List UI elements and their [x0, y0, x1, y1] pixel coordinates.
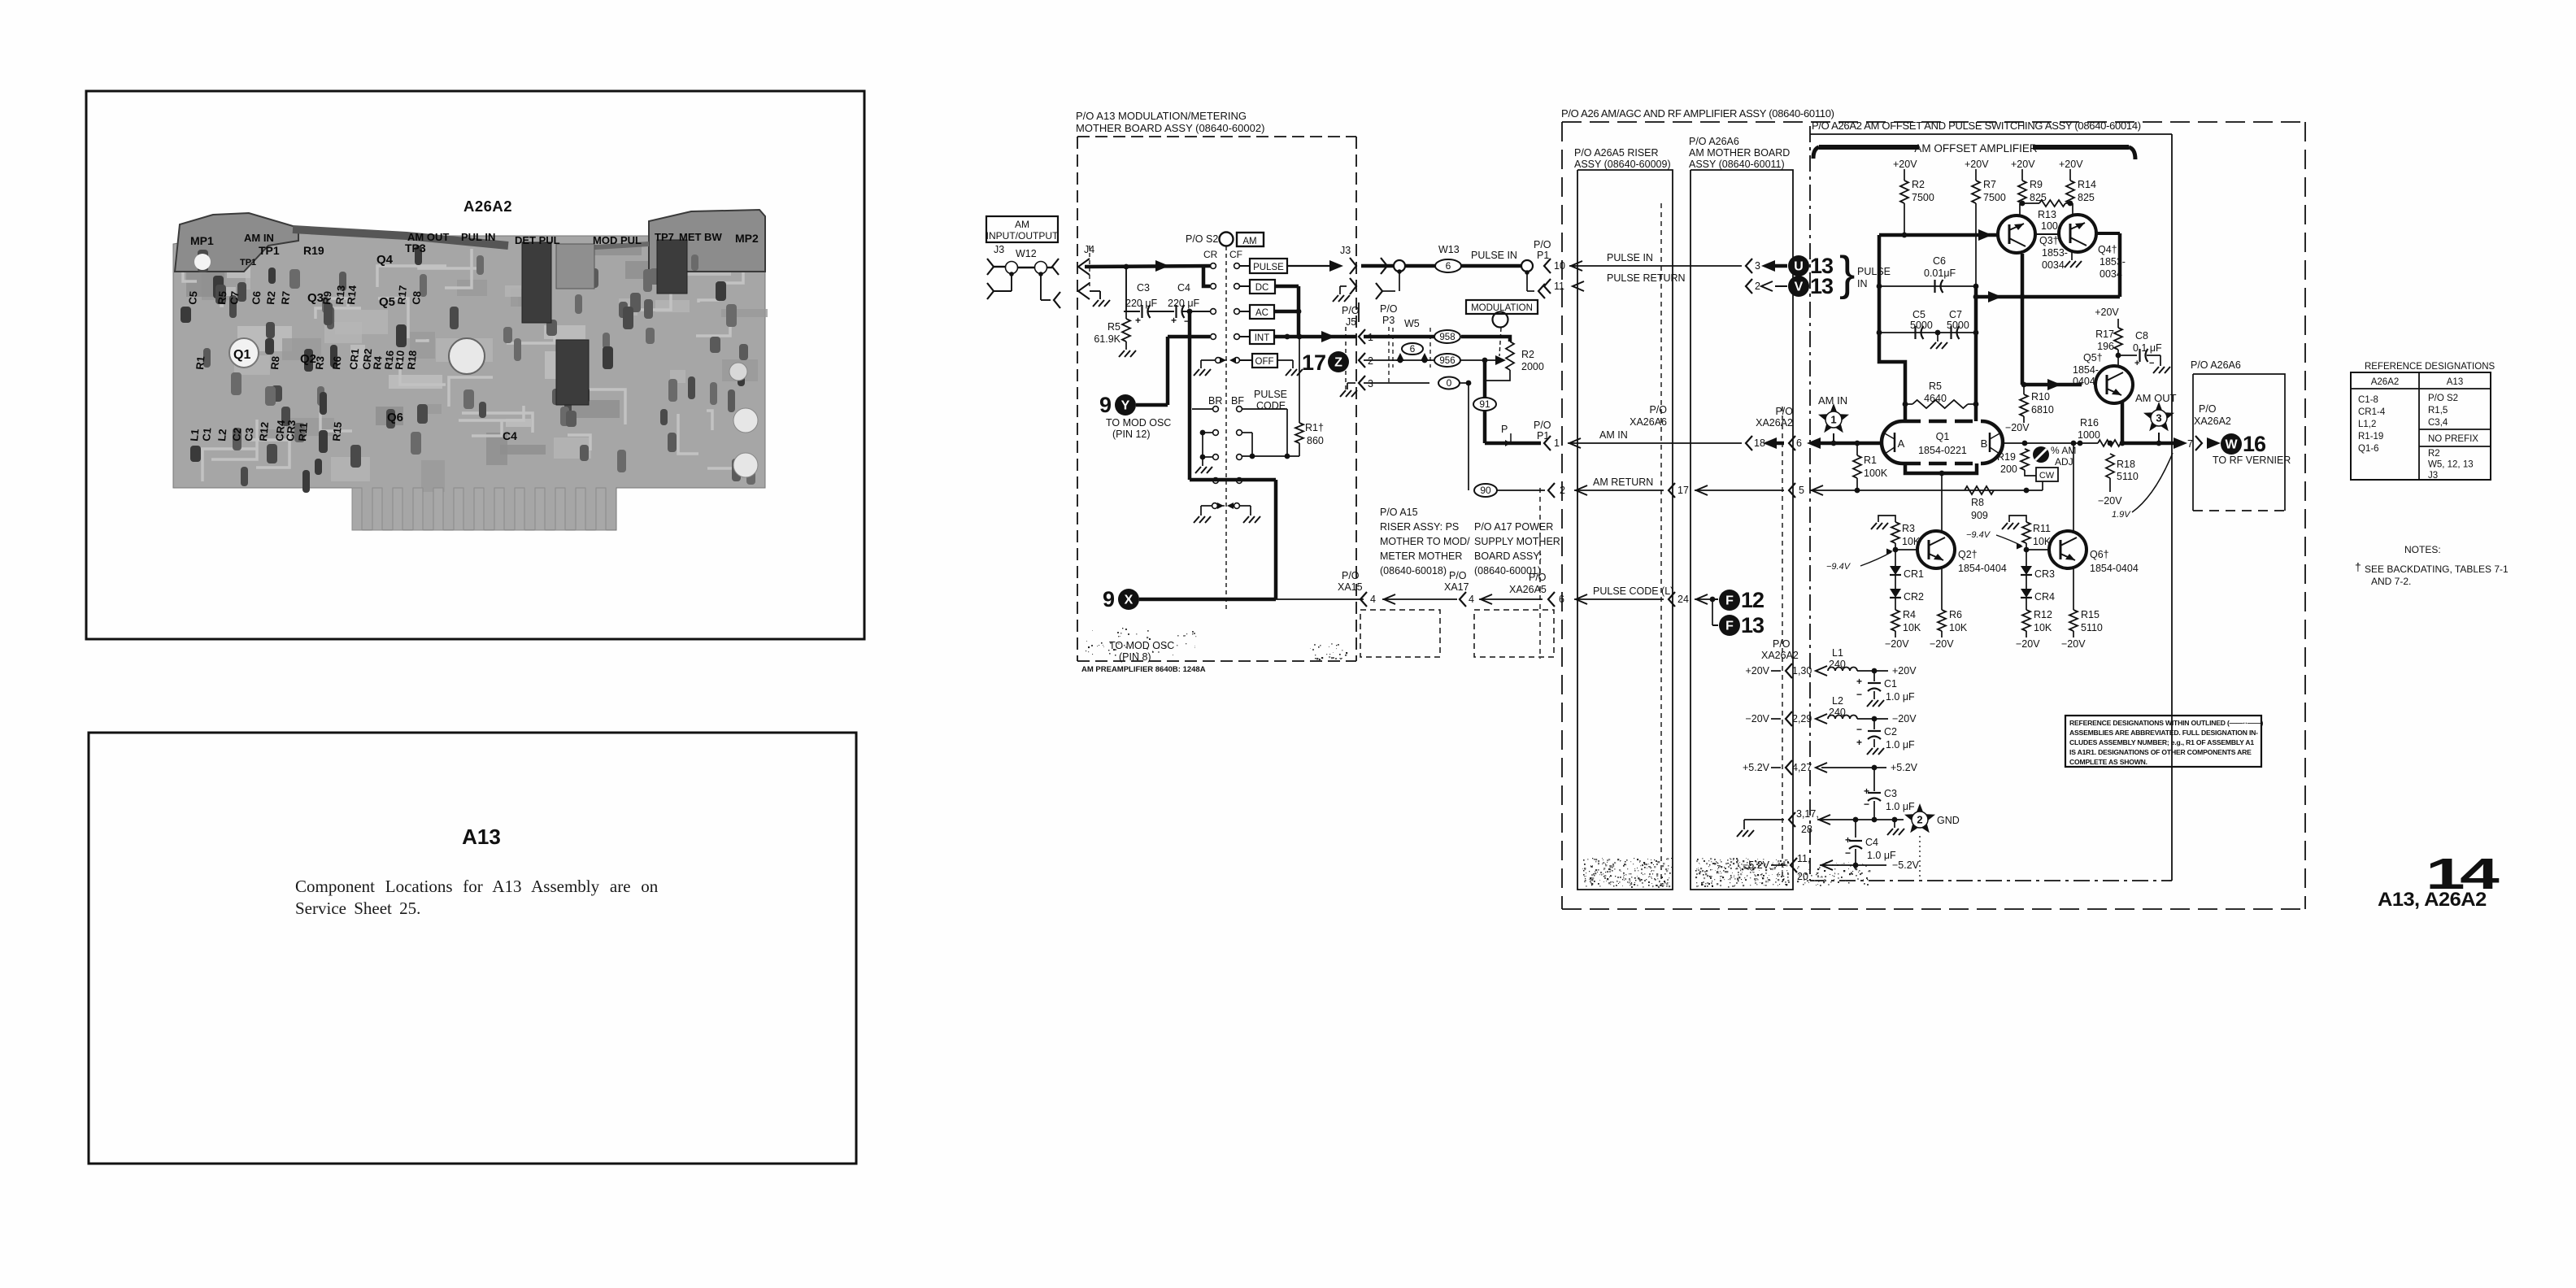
- svg-text:13: 13: [1741, 613, 1764, 637]
- svg-text:−20V: −20V: [2098, 495, 2122, 507]
- svg-text:Q6†: Q6†: [2090, 549, 2109, 560]
- svg-text:+: +: [1171, 315, 1177, 326]
- svg-text:PULSE: PULSE: [1253, 263, 1284, 272]
- svg-text:240: 240: [1829, 707, 1846, 718]
- svg-text:P3: P3: [1382, 315, 1395, 326]
- svg-text:C6: C6: [250, 290, 263, 305]
- svg-text:4: 4: [1469, 594, 1474, 605]
- svg-text:R2: R2: [1521, 349, 1534, 360]
- svg-text:DC: DC: [1255, 283, 1269, 293]
- svg-text:+20V: +20V: [1965, 159, 1989, 170]
- svg-text:AM IN: AM IN: [1818, 394, 1847, 407]
- svg-text:1854-0221: 1854-0221: [1918, 445, 1967, 456]
- svg-text:A: A: [1898, 437, 1905, 450]
- svg-text:P/O S2: P/O S2: [2428, 394, 2458, 403]
- svg-text:4: 4: [1370, 594, 1376, 605]
- svg-text:AM: AM: [1242, 237, 1256, 246]
- svg-text:−5.2V: −5.2V: [1892, 859, 1920, 871]
- svg-text:CODE: CODE: [1256, 400, 1286, 411]
- svg-text:−20V: −20V: [1930, 638, 1954, 650]
- svg-text:P/O: P/O: [1649, 404, 1667, 416]
- svg-text:R14: R14: [345, 284, 359, 305]
- svg-text:C4: C4: [1865, 837, 1878, 848]
- svg-text:1853-: 1853-: [2042, 247, 2068, 259]
- svg-text:R18: R18: [2117, 459, 2135, 470]
- svg-text:R2: R2: [1912, 179, 1925, 190]
- svg-text:P/O: P/O: [1534, 239, 1551, 250]
- svg-text:9: 9: [1103, 587, 1115, 611]
- svg-text:AM PREAMPLIFIER 8640B: 1248A: AM PREAMPLIFIER 8640B: 1248A: [1081, 665, 1206, 674]
- svg-text:11: 11: [1554, 281, 1564, 292]
- svg-text:R4: R4: [1903, 609, 1916, 620]
- svg-text:956: 956: [1439, 356, 1455, 366]
- svg-text:−: −: [1184, 315, 1190, 327]
- svg-text:J3: J3: [1340, 245, 1351, 256]
- svg-text:P/O: P/O: [1534, 420, 1551, 431]
- svg-text:R16: R16: [2080, 417, 2099, 429]
- svg-text:1: 1: [1554, 437, 1560, 449]
- svg-text:P/O A17 POWER: P/O A17 POWER: [1474, 521, 1553, 533]
- svg-text:R1: R1: [194, 355, 207, 370]
- svg-text:+20V: +20V: [1892, 665, 1917, 677]
- svg-text:CR: CR: [1203, 249, 1218, 260]
- svg-text:−: −: [1856, 724, 1862, 735]
- svg-text:(PIN 8): (PIN 8): [1119, 651, 1151, 663]
- svg-text:P/O: P/O: [1342, 305, 1360, 316]
- svg-text:R13: R13: [2038, 209, 2056, 220]
- svg-text:2: 2: [1917, 814, 1922, 826]
- svg-text:16: 16: [2243, 432, 2266, 456]
- svg-text:R15: R15: [330, 421, 344, 442]
- svg-text:Service Sheet 25.: Service Sheet 25.: [295, 899, 420, 918]
- svg-text:−9.4V: −9.4V: [1826, 562, 1851, 572]
- svg-text:REFERENCE DESIGNATIONS WITHIN: REFERENCE DESIGNATIONS WITHIN OUTLINED (…: [2069, 719, 2264, 727]
- svg-text:AM OUT: AM OUT: [2135, 392, 2177, 404]
- svg-text:W12: W12: [1016, 248, 1037, 259]
- svg-text:17: 17: [1677, 485, 1689, 496]
- svg-text:R9: R9: [2030, 179, 2043, 190]
- svg-text:J3: J3: [994, 244, 1004, 255]
- svg-text:P/O A26A6: P/O A26A6: [1689, 136, 1739, 147]
- svg-text:0.01μF: 0.01μF: [1924, 268, 1956, 279]
- svg-text:R3: R3: [1902, 523, 1915, 534]
- svg-text:91: 91: [1479, 398, 1490, 410]
- svg-text:5110: 5110: [2117, 471, 2139, 482]
- svg-text:+: +: [1864, 785, 1869, 797]
- svg-text:3: 3: [1368, 378, 1373, 389]
- svg-text:4,27: 4,27: [1792, 762, 1812, 773]
- svg-text:F: F: [1725, 620, 1734, 633]
- svg-text:C6: C6: [1933, 255, 1946, 267]
- svg-text:1854-0404: 1854-0404: [2090, 563, 2139, 574]
- svg-text:L1: L1: [188, 429, 201, 442]
- svg-text:P/O S2: P/O S2: [1186, 233, 1218, 245]
- svg-text:NOTES:: NOTES:: [2404, 544, 2441, 555]
- svg-text:XA15: XA15: [1338, 581, 1363, 593]
- svg-text:13: 13: [1810, 274, 1834, 298]
- svg-text:20: 20: [1797, 871, 1808, 882]
- svg-text:TP1: TP1: [259, 244, 280, 257]
- svg-text:RISER ASSY: PS: RISER ASSY: PS: [1380, 521, 1459, 533]
- svg-text:CR3: CR3: [2034, 568, 2055, 580]
- svg-text:1000: 1000: [2078, 429, 2100, 441]
- svg-text:(PIN 12): (PIN 12): [1112, 429, 1151, 440]
- svg-text:+20V: +20V: [2059, 159, 2083, 170]
- svg-text:C1: C1: [1884, 678, 1897, 690]
- svg-text:C5: C5: [1912, 309, 1925, 320]
- svg-text:R2: R2: [2428, 449, 2440, 459]
- svg-text:860: 860: [1307, 435, 1324, 446]
- svg-text:BR: BR: [1208, 395, 1222, 407]
- svg-text:(08640-60018): (08640-60018): [1380, 565, 1447, 577]
- svg-text:R10: R10: [2031, 391, 2050, 402]
- svg-text:+: +: [1135, 315, 1141, 326]
- svg-text:R1-19: R1-19: [2358, 432, 2383, 442]
- svg-text:XA17: XA17: [1444, 581, 1469, 593]
- svg-text:J5: J5: [1346, 316, 1356, 328]
- svg-text:−: −: [2149, 359, 2154, 368]
- svg-text:A26A2: A26A2: [2371, 377, 2400, 387]
- svg-text:0.1 μF: 0.1 μF: [2133, 342, 2162, 354]
- svg-text:P/O: P/O: [2199, 403, 2217, 415]
- svg-text:−20V: −20V: [1745, 713, 1769, 724]
- svg-text:BOARD ASSY:: BOARD ASSY:: [1474, 550, 1542, 562]
- svg-text:NO PREFIX: NO PREFIX: [2428, 434, 2478, 444]
- svg-text:IS A1R1. DESIGNATIONS OF OTH: IS A1R1. DESIGNATIONS OF OTHER COMPONENT…: [2069, 748, 2252, 756]
- svg-text:TP7: TP7: [655, 231, 674, 243]
- svg-text:C2: C2: [230, 427, 243, 442]
- svg-text:XA26A5: XA26A5: [1509, 584, 1547, 595]
- svg-text:XA26A6: XA26A6: [1630, 416, 1667, 428]
- svg-text:SUPPLY MOTHER: SUPPLY MOTHER: [1474, 536, 1560, 547]
- svg-text:MOTHER TO MOD/: MOTHER TO MOD/: [1380, 536, 1470, 547]
- svg-text:6: 6: [1796, 437, 1802, 449]
- svg-text:2000: 2000: [1521, 361, 1544, 372]
- svg-text:Q2†: Q2†: [1958, 549, 1978, 560]
- svg-text:909: 909: [1971, 510, 1988, 521]
- svg-text:P/O: P/O: [1380, 303, 1398, 315]
- svg-text:C5: C5: [186, 290, 199, 305]
- svg-text:10K: 10K: [1903, 622, 1921, 633]
- svg-text:1.0 μF: 1.0 μF: [1886, 801, 1915, 812]
- svg-text:P/O A26A6: P/O A26A6: [2191, 359, 2241, 371]
- svg-text:TO RF VERNIER: TO RF VERNIER: [2213, 455, 2291, 466]
- svg-text:AM IN: AM IN: [1599, 429, 1628, 441]
- svg-text:R7: R7: [279, 290, 292, 305]
- svg-text:C8: C8: [410, 290, 423, 305]
- svg-text:P/O A26A5 RISER: P/O A26A5 RISER: [1574, 147, 1659, 159]
- svg-text:240: 240: [1829, 659, 1846, 670]
- svg-text:P/O: P/O: [1342, 570, 1360, 581]
- svg-text:MP1: MP1: [190, 234, 214, 247]
- svg-text:−5.2V: −5.2V: [1743, 859, 1770, 871]
- svg-text:ADJ: ADJ: [2055, 456, 2073, 468]
- svg-text:AM RETURN: AM RETURN: [1593, 476, 1653, 488]
- svg-text:A13: A13: [2447, 377, 2463, 387]
- svg-text:R5: R5: [215, 290, 228, 305]
- svg-text:B: B: [1981, 437, 1988, 450]
- svg-text:CF: CF: [1229, 249, 1242, 260]
- svg-text:R8: R8: [1971, 497, 1984, 508]
- svg-text:PULSE IN: PULSE IN: [1471, 250, 1517, 261]
- svg-text:Z: Z: [1334, 356, 1342, 370]
- svg-text:1.0 μF: 1.0 μF: [1886, 691, 1915, 703]
- svg-text:P/O: P/O: [1775, 406, 1793, 417]
- svg-text:Q4†: Q4†: [2098, 244, 2117, 255]
- svg-text:PULSE CODE (L): PULSE CODE (L): [1593, 585, 1673, 597]
- svg-text:Q5†: Q5†: [2083, 352, 2103, 363]
- svg-text:C7: C7: [228, 290, 241, 305]
- svg-text:825: 825: [2030, 192, 2047, 203]
- svg-text:R14: R14: [2078, 179, 2096, 190]
- svg-text:CR1: CR1: [1904, 568, 1924, 580]
- svg-text:R12: R12: [257, 421, 271, 442]
- svg-text:10: 10: [1554, 260, 1565, 272]
- svg-text:4640: 4640: [1924, 393, 1947, 404]
- svg-text:P/O A13 MODULATION/METERING: P/O A13 MODULATION/METERING: [1076, 110, 1247, 122]
- svg-text:3: 3: [2156, 412, 2161, 424]
- svg-text:9: 9: [1099, 393, 1112, 417]
- svg-text:R3: R3: [313, 355, 326, 370]
- svg-text:R6: R6: [1949, 609, 1962, 620]
- svg-text:DET PUL: DET PUL: [515, 234, 560, 246]
- svg-text:P/O A26 AM/AGC AND RF AMPLIFIE: P/O A26 AM/AGC AND RF AMPLIFIER ASSY (08…: [1561, 107, 1834, 120]
- svg-text:Component Locations for A13 As: Component Locations for A13 Assembly are…: [295, 877, 659, 896]
- svg-text:1.0 μF: 1.0 μF: [1886, 739, 1915, 751]
- svg-text:1854-0404: 1854-0404: [1958, 563, 2007, 574]
- svg-text:R9: R9: [320, 290, 333, 305]
- svg-text:OFF: OFF: [1255, 357, 1274, 367]
- svg-text:REFERENCE DESIGNATIONS: REFERENCE DESIGNATIONS: [2365, 362, 2495, 372]
- svg-text:CLUDES ASSEMBLY NUMBER; e.g.,: CLUDES ASSEMBLY NUMBER; e.g., R1 OF ASSE…: [2069, 738, 2254, 746]
- svg-text:U: U: [1794, 260, 1804, 274]
- svg-text:7500: 7500: [1912, 192, 1934, 203]
- svg-text:PULSE: PULSE: [1254, 389, 1287, 400]
- svg-text:3: 3: [1755, 260, 1760, 272]
- svg-text:−9.4V: −9.4V: [1966, 530, 1991, 540]
- svg-text:X: X: [1125, 594, 1134, 607]
- svg-text:R6: R6: [330, 355, 343, 370]
- svg-text:C1-8: C1-8: [2358, 395, 2378, 405]
- svg-text:PULSE: PULSE: [1857, 266, 1891, 277]
- svg-text:R18: R18: [405, 350, 419, 370]
- svg-text:MET BW: MET BW: [679, 231, 722, 243]
- svg-text:MOD PUL: MOD PUL: [593, 234, 642, 246]
- svg-text:R17: R17: [395, 285, 409, 305]
- svg-text:−20V: −20V: [2061, 638, 2086, 650]
- svg-text:12: 12: [1741, 588, 1764, 612]
- svg-text:C4: C4: [1177, 282, 1190, 294]
- svg-text:R5: R5: [1929, 381, 1942, 392]
- svg-text:L1,2: L1,2: [2358, 420, 2376, 429]
- svg-text:A13: A13: [462, 825, 501, 849]
- svg-text:5: 5: [1799, 485, 1804, 496]
- svg-text:+: +: [1856, 737, 1862, 748]
- svg-text:R17: R17: [2095, 329, 2114, 340]
- svg-text:C8: C8: [2135, 330, 2148, 342]
- svg-text:P/O: P/O: [1449, 570, 1467, 581]
- svg-text:PUL IN: PUL IN: [461, 231, 495, 243]
- svg-text:MP2: MP2: [735, 232, 759, 245]
- svg-text:C7: C7: [1949, 309, 1962, 320]
- svg-text:R15: R15: [2081, 609, 2100, 620]
- svg-text:P1: P1: [1537, 250, 1549, 261]
- svg-text:R5: R5: [1107, 321, 1120, 333]
- svg-text:P/O: P/O: [1773, 638, 1791, 650]
- svg-text:+20V: +20V: [2011, 159, 2035, 170]
- svg-text:Q5: Q5: [379, 295, 395, 309]
- svg-text:0034: 0034: [2042, 259, 2065, 271]
- svg-text:R11: R11: [2033, 523, 2051, 534]
- svg-text:CW: CW: [2039, 471, 2055, 481]
- svg-text:R12: R12: [2034, 609, 2052, 620]
- svg-text:P/O A15: P/O A15: [1380, 507, 1418, 518]
- svg-text:XA26A2: XA26A2: [1761, 650, 1799, 661]
- svg-text:1,30: 1,30: [1792, 665, 1812, 677]
- svg-text:6810: 6810: [2031, 404, 2054, 416]
- svg-text:R1: R1: [1864, 455, 1877, 466]
- svg-text:−20V: −20V: [2005, 422, 2030, 433]
- svg-text:10K: 10K: [2034, 622, 2052, 633]
- svg-text:−20V: −20V: [1892, 713, 1917, 724]
- svg-text:AM: AM: [1015, 219, 1029, 230]
- svg-text:P/O A26A2 AM OFFSET AND PULSE: P/O A26A2 AM OFFSET AND PULSE SWITCHING …: [1812, 120, 2141, 132]
- svg-text:INT: INT: [1255, 333, 1270, 343]
- svg-text:+5.2V: +5.2V: [1743, 762, 1770, 773]
- svg-text:61.9K: 61.9K: [1094, 333, 1120, 345]
- svg-text:CR1: CR1: [347, 348, 361, 370]
- svg-text:90: 90: [1480, 485, 1491, 496]
- svg-text:COMPLETE AS SHOWN.: COMPLETE AS SHOWN.: [2069, 758, 2147, 766]
- svg-text:2: 2: [1368, 355, 1373, 367]
- svg-text:AM MOTHER BOARD: AM MOTHER BOARD: [1689, 147, 1790, 159]
- svg-text:5110: 5110: [2081, 622, 2103, 633]
- svg-text:AM OFFSET AMPLIFIER: AM OFFSET AMPLIFIER: [1914, 142, 2038, 154]
- svg-text:220 μF: 220 μF: [1168, 298, 1200, 309]
- svg-text:CR2: CR2: [1904, 591, 1924, 603]
- svg-text:2: 2: [1560, 485, 1565, 496]
- svg-text:A13, A26A2: A13, A26A2: [2378, 890, 2487, 911]
- svg-text:5000: 5000: [1910, 320, 1933, 331]
- svg-text:W5: W5: [1404, 318, 1420, 329]
- svg-text:F: F: [1725, 594, 1734, 608]
- svg-text:R1†: R1†: [1305, 422, 1324, 433]
- svg-text:−20V: −20V: [2016, 638, 2040, 650]
- svg-text:TO MOD OSC: TO MOD OSC: [1109, 640, 1174, 651]
- svg-text:C1: C1: [200, 427, 213, 442]
- svg-text:Q1: Q1: [1936, 431, 1950, 442]
- svg-text:200: 200: [2000, 463, 2017, 475]
- svg-text:SEE BACKDATING, TABLES 7-1: SEE BACKDATING, TABLES 7-1: [2365, 563, 2509, 575]
- svg-text:L2: L2: [1832, 695, 1843, 707]
- svg-text:Y: Y: [1121, 399, 1130, 413]
- svg-text:IN: IN: [1857, 278, 1868, 289]
- svg-text:% AM: % AM: [2051, 445, 2076, 456]
- svg-text:3,17,: 3,17,: [1796, 808, 1819, 820]
- svg-text:CR4: CR4: [2034, 591, 2055, 603]
- svg-text:Q4: Q4: [376, 253, 394, 267]
- svg-text:W: W: [2225, 438, 2238, 452]
- svg-text:CR1-4: CR1-4: [2358, 407, 2386, 417]
- svg-text:ASSY (08640-60009): ASSY (08640-60009): [1574, 159, 1671, 170]
- svg-text:100K: 100K: [1864, 468, 1888, 479]
- svg-text:7: 7: [2187, 438, 2193, 450]
- svg-text:11,: 11,: [1797, 853, 1810, 864]
- svg-text:XA26A2: XA26A2: [1756, 417, 1793, 429]
- svg-text:L1: L1: [1832, 647, 1843, 659]
- svg-text:C3: C3: [242, 427, 255, 442]
- svg-text:AND 7-2.: AND 7-2.: [2371, 576, 2411, 587]
- svg-text:0: 0: [1447, 377, 1452, 389]
- svg-text:R1,5: R1,5: [2428, 406, 2448, 416]
- svg-text:R8: R8: [268, 355, 281, 370]
- svg-text:TP3: TP3: [405, 241, 426, 255]
- svg-text:R2: R2: [264, 290, 277, 305]
- svg-text:Q6: Q6: [387, 411, 403, 424]
- svg-text:Q1-6: Q1-6: [2358, 444, 2379, 454]
- svg-text:5000: 5000: [1947, 320, 1969, 331]
- svg-text:ASSEMBLIES ARE ABBREVIATED. F: ASSEMBLIES ARE ABBREVIATED. FULL DESIGNA…: [2069, 729, 2258, 737]
- svg-text:+20V: +20V: [1893, 159, 1917, 170]
- svg-text:V: V: [1795, 281, 1804, 294]
- svg-text:+5.2V: +5.2V: [1891, 762, 1918, 773]
- svg-text:6: 6: [1559, 594, 1564, 605]
- svg-text:R7: R7: [1983, 179, 1996, 190]
- svg-text:BF: BF: [1231, 395, 1244, 407]
- svg-text:1.9V: 1.9V: [2112, 510, 2131, 520]
- svg-text:−: −: [1845, 847, 1851, 859]
- svg-text:28: 28: [1801, 824, 1812, 835]
- svg-text:Q1: Q1: [233, 348, 250, 362]
- svg-text:W5, 12, 13: W5, 12, 13: [2428, 460, 2474, 470]
- svg-text:24: 24: [1677, 594, 1689, 605]
- svg-text:PULSE RETURN: PULSE RETURN: [1607, 272, 1686, 284]
- svg-text:AM IN: AM IN: [244, 232, 274, 244]
- svg-text:0404: 0404: [2073, 376, 2095, 387]
- svg-text:ASSY (08640-60011): ASSY (08640-60011): [1689, 159, 1785, 170]
- svg-text:INPUT/OUTPUT: INPUT/OUTPUT: [986, 230, 1059, 241]
- svg-text:METER MOTHER: METER MOTHER: [1380, 550, 1462, 562]
- svg-text:10K: 10K: [1949, 622, 1968, 633]
- svg-text:6: 6: [1446, 260, 1451, 272]
- svg-text:1854-: 1854-: [2073, 364, 2099, 376]
- svg-text:W13: W13: [1438, 244, 1460, 255]
- svg-text:}: }: [1839, 247, 1855, 300]
- svg-text:MOTHER BOARD ASSY (08640-60002: MOTHER BOARD ASSY (08640-60002): [1076, 122, 1264, 134]
- svg-text:AM OUT: AM OUT: [407, 231, 449, 243]
- svg-text:196: 196: [2097, 341, 2114, 352]
- svg-text:A26A2: A26A2: [463, 198, 512, 215]
- svg-text:+: +: [1856, 676, 1862, 687]
- svg-text:TO MOD OSC: TO MOD OSC: [1106, 417, 1171, 429]
- svg-text:P: P: [1501, 424, 1508, 435]
- svg-text:825: 825: [2078, 192, 2095, 203]
- svg-text:Q3†: Q3†: [2039, 235, 2059, 246]
- svg-text:C3: C3: [1884, 788, 1897, 799]
- svg-text:L2: L2: [215, 429, 228, 442]
- svg-text:C2: C2: [1884, 726, 1897, 738]
- svg-text:7500: 7500: [1983, 192, 2006, 203]
- svg-text:−: −: [1856, 689, 1862, 700]
- svg-text:17: 17: [1302, 350, 1326, 375]
- svg-text:100: 100: [2041, 220, 2058, 232]
- svg-text:J3: J3: [2428, 471, 2438, 481]
- svg-text:C4: C4: [503, 429, 517, 442]
- svg-text:PULSE IN: PULSE IN: [1607, 252, 1653, 263]
- svg-text:−20V: −20V: [1885, 638, 1909, 650]
- svg-text:R19: R19: [303, 244, 324, 257]
- svg-text:220 μF: 220 μF: [1125, 298, 1158, 309]
